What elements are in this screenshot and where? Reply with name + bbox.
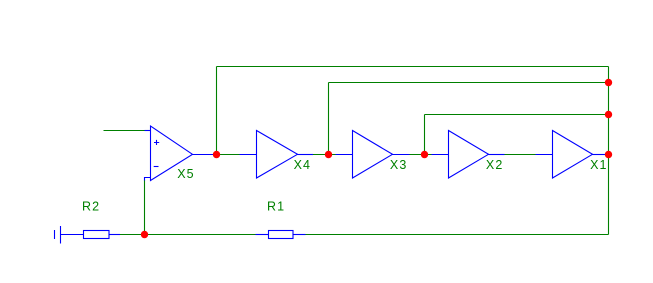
buffer X4 output pin <box>298 154 314 156</box>
buffer X4 triangle body <box>257 131 298 179</box>
battery V1 positive plate <box>60 226 62 244</box>
wire: feedback line 1 horizontal (X5 output to bus) <box>217 66 609 68</box>
svg-text:R2: R2 <box>82 199 100 213</box>
op-amp X5 minus input pin <box>145 178 151 181</box>
wire: feedback line 2 vertical at X4 output node <box>328 83 330 155</box>
buffer X2 input pin <box>432 154 449 156</box>
node: feedback line 3 junction on bus <box>605 111 612 118</box>
resistor R2 right pin <box>109 234 120 236</box>
wire: X2 output to X1 input <box>504 154 536 156</box>
wire: feedback line 2 horizontal (X4 output to bus) <box>329 82 609 84</box>
op-amp X5 minus symbol <box>154 166 159 168</box>
op-amp X5 plus input pin <box>145 130 151 132</box>
wire: X3 output to X2 input <box>409 154 432 156</box>
resistor R1 body <box>269 231 294 239</box>
wire: right vertical bus <box>608 67 610 235</box>
node: X4 output junction <box>325 151 332 158</box>
wire: feedback line 1 vertical at X5 output node <box>216 67 218 155</box>
node: bottom net junction <box>141 231 148 238</box>
wire: X5 output to X4 input <box>217 154 241 156</box>
buffer X3 output pin <box>393 154 410 156</box>
svg-text:X3: X3 <box>390 158 408 172</box>
wire: feedback line 3 horizontal (X3 output to bus) <box>425 114 609 116</box>
resistor R1 left pin <box>256 234 270 236</box>
op-amp X5 plus symbol <box>154 140 159 145</box>
buffer X1 output pin <box>593 154 609 156</box>
buffer X2 triangle body <box>449 131 489 179</box>
node: X1 output junction on bus <box>605 151 612 158</box>
svg-text:X5: X5 <box>177 167 195 181</box>
op-amp X5 output pin <box>193 154 217 156</box>
node: X5 output junction <box>213 151 220 158</box>
wire: bottom net R1 to right bus <box>306 234 609 236</box>
buffer X3 triangle body <box>353 131 393 179</box>
wire: X5 non-inverting input <box>104 130 145 132</box>
buffer X1 input pin <box>536 154 553 156</box>
wire: feedback line 3 vertical at X3 output node <box>424 115 426 155</box>
wire: battery to R2 <box>61 234 84 236</box>
resistor R2 body <box>84 231 110 239</box>
buffer X1 triangle body <box>553 131 593 179</box>
buffer X2 output pin <box>489 154 505 156</box>
svg-text:X1: X1 <box>590 158 608 172</box>
node: feedback line 2 junction on bus <box>605 79 612 86</box>
svg-text:R1: R1 <box>267 199 285 213</box>
buffer X3 input pin <box>336 154 353 156</box>
node: X3 output junction <box>421 151 428 158</box>
svg-text:X4: X4 <box>294 158 312 172</box>
resistor R1 right pin <box>293 234 306 236</box>
wire: bottom net R2 to R1 through node B <box>120 234 256 236</box>
svg-text:X2: X2 <box>486 158 504 172</box>
op-amp X5 triangle body <box>151 126 193 181</box>
wire: X5 inverting input vertical down to bottom node <box>144 180 146 235</box>
battery V1 negative plate <box>54 230 56 239</box>
wire: X4 output to X3 input <box>313 154 337 156</box>
buffer X4 input pin <box>240 154 257 156</box>
